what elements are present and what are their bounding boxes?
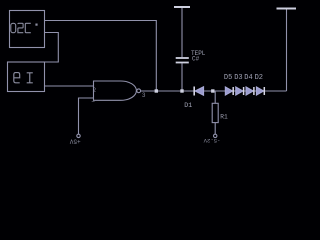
capacitor C1 bottom plate [176, 62, 189, 64]
svg-text:3: 3 [142, 92, 146, 99]
label U2 glyph I [27, 73, 33, 83]
label U1 text "02C" glyph 0 [11, 23, 16, 32]
junction node C [211, 89, 214, 92]
svg-text:D4: D4 [244, 74, 252, 82]
svg-text:D5: D5 [224, 74, 232, 82]
svg-text:D1: D1 [184, 102, 192, 109]
wire: gate input B down to +5V power port [79, 98, 94, 134]
svg-text:R1: R1 [220, 114, 228, 121]
wire: left rail vertical lower (cap to row) [181, 63, 183, 91]
label U1 text glyph C [25, 23, 31, 32]
wire: resistor R1 top lead [214, 91, 216, 103]
junction node B [180, 89, 183, 92]
wire: left rail vertical upper [181, 7, 183, 57]
diode D1 [195, 87, 204, 96]
svg-text:+5V: +5V [69, 137, 80, 144]
svg-text:-5.2V: -5.2V [203, 137, 220, 144]
label U1 text glyph 2 [18, 23, 23, 32]
power port circle +5V [77, 134, 80, 137]
resistor R1 body [212, 103, 218, 122]
gate U3 (NAND) body [94, 81, 137, 100]
wire: U1 pin 2 to U2 top corner [45, 33, 59, 63]
label U2 glyph e [14, 73, 20, 83]
wire: R1 bottom lead to power port [214, 123, 216, 135]
svg-text:D3: D3 [234, 74, 242, 82]
inverter bubble on gate output [137, 89, 141, 93]
svg-text:1: 1 [91, 97, 95, 104]
wire: U2 output to gate input A [45, 85, 94, 87]
junction node A [155, 89, 158, 92]
wire: right rail vertical [286, 9, 288, 92]
svg-text:C#: C# [192, 55, 200, 62]
diode D4 [246, 87, 253, 95]
svg-text:D2: D2 [255, 74, 263, 82]
IC box U1 (oscillator) [10, 11, 45, 48]
power port circle -5.2V [214, 134, 217, 137]
svg-text:2: 2 [93, 87, 97, 94]
diode D3 [236, 87, 243, 95]
power bar VCC2 (right T rail) [277, 8, 297, 10]
capacitor C1 top plate [176, 57, 189, 59]
wire: gate output main row [141, 90, 287, 92]
diode D2 [256, 87, 263, 95]
power bar VCC1 (left T rail) [174, 6, 190, 8]
diode D5 [225, 87, 232, 95]
wire: U1 top pin to feedback node [45, 21, 157, 92]
IC box U2 [8, 62, 45, 92]
